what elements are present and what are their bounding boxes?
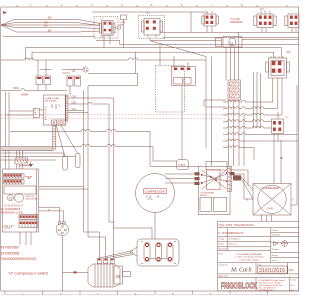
fan motor M2 [88,259,131,288]
terminal strip T1 [65,95,68,121]
svg-text:M. Carli: M. Carli [230,267,252,273]
svg-text:N. 4370800898 REV.01: N. 4370800898 REV.01 [219,232,245,235]
svg-text:+/- 1mm / 0.5 gradi / 1/4 (mm): +/- 1mm / 0.5 gradi / 1/4 (mm) [235,256,264,259]
wire A2 bottom long [163,36,300,38]
svg-text:"A": "A" [71,68,77,73]
wire relay to condenser [232,134,298,205]
svg-text:FRIGOBLOCK: FRIGOBLOCK [221,281,258,290]
wire harness taper [1,20,100,37]
fuse stack right [228,80,241,100]
fuse F1 30A [120,15,127,48]
relay C [272,112,289,141]
svg-text:G: G [9,195,12,200]
svg-text:N. Modifiche: N. Modifiche [229,238,241,240]
wire diagonal bus center [150,37,221,66]
connector B1 6-pin [254,8,276,32]
connector A2 6-pin [139,12,165,39]
svg-text:5B: 5B [280,157,283,160]
wire k-cluster links [1,70,83,97]
svg-text:+/- 0.5 valori angolari: +/- 0.5 valori angolari [239,258,260,261]
wire pressure to motor [99,251,133,259]
ground [20,162,34,168]
svg-text:12 13 14 15 16 17: 12 13 14 15 16 17 [4,205,24,208]
component box center top [171,62,195,160]
wire right bus with hops [223,100,297,147]
connector X2 small [5,108,43,117]
svg-text:BK: BK [48,29,52,33]
wire N to bus verticals [273,78,282,115]
svg-text:CN1: CN1 [178,164,185,168]
connector CN1 [177,160,189,170]
fuse F3 [76,154,81,168]
svg-text:HARNESS: HARNESS [230,20,243,24]
svg-text:M: M [116,274,120,279]
controller U1 [1,169,39,232]
svg-text:445-230VAC: 445-230VAC [45,100,58,103]
svg-text:Grady: Grady [219,238,224,240]
svg-text:31/01/2016: 31/01/2016 [259,268,285,274]
harness wire labels [44,16,52,33]
label TO CAB HARNESS [230,17,243,24]
fuse F2 [63,156,68,170]
wire controller bottom stubs [20,232,31,245]
wire diagonal pair to fuses [56,125,78,156]
wire dashed pink pair [1,115,225,119]
svg-text:R434000090 12-24V: R434000090 12-24V [1,212,23,215]
svg-text:"A": "A" [114,26,118,30]
relay block K3 [198,162,234,215]
svg-text:"OUT": "OUT" [3,225,15,230]
wire top loop [92,12,299,45]
wire right verticals upper [226,32,239,80]
switch D [216,37,300,48]
svg-text:COMPRESSOR: COMPRESSOR [145,189,165,193]
svg-text:4370800897: 4370800897 [1,246,20,250]
svg-text:"N": "N" [286,51,292,55]
wire CN2 to motor [62,236,88,291]
svg-text:BU: BU [44,24,48,28]
svg-text:"C": "C" [285,116,289,120]
connector A1 4-pin [94,17,118,39]
wire mid horizontals with hops [1,129,177,166]
svg-text:C05: C05 [72,102,77,105]
svg-text:C06: C06 [72,96,77,99]
node A bubble [114,26,121,30]
svg-text:Approvato: Approvato [219,275,229,278]
wire controller to bus [39,187,88,190]
svg-text:440-230VAC: 440-230VAC [26,198,39,201]
svg-text:4370800898: 4370800898 [1,252,20,256]
wire right verticals lower [229,72,298,166]
wire center verticals [204,57,226,167]
svg-text:Numero: Numero [272,249,280,251]
dashed box center [155,65,184,112]
svg-text:"d" Compressor switch: "d" Compressor switch [8,271,48,276]
title block [218,221,299,291]
wire compressor to relay [150,166,200,185]
wiring loom ribbed band [1,147,53,151]
svg-text:Podnokel: Podnokel [272,235,281,237]
svg-text:Sch: Sch [289,268,295,272]
wire mid vertical buses [5,86,105,258]
svg-text:C04: C04 [72,108,77,111]
svg-text:Prima: Prima [219,244,225,246]
svg-text:POL. 4TRS. STAGIONATURA: POL. 4TRS. STAGIONATURA [219,223,254,227]
svg-text:www.frigoblock.it: www.frigoblock.it [259,289,274,292]
svg-text:Materiale: Materiale [219,248,228,251]
relay K2 [67,76,81,86]
svg-text:Disegnato: Disegnato [219,264,229,267]
connector B2 6-pin far right [285,14,299,32]
svg-text:CONDENSER: CONDENSER [262,186,280,190]
svg-text:CLIMA SOLAR: CLIMA SOLAR [45,97,60,100]
svg-text:D: D [230,41,233,46]
control unit X1 [43,95,66,125]
pressure switch S1 [130,213,179,267]
terminal strip T2 vertical [53,125,56,149]
wire A1 bottom stubs [104,36,110,48]
node A left label [71,67,88,73]
svg-text:BK: BK [48,16,52,20]
relay K1 [36,60,70,95]
svg-text:H05B4: H05B4 [21,93,29,96]
svg-text:Scala: Scala [272,260,278,262]
svg-text:TOLLERANZE GENERALI: TOLLERANZE GENERALI [236,253,262,256]
svg-text:Ovlare: Ovlare [272,230,279,232]
svg-text:U: U [146,196,148,199]
wire long y32 [160,31,299,33]
svg-text:R434000090SERVICE1: R434000090SERVICE1 [1,257,37,261]
svg-text:"IN": "IN" [25,175,33,180]
svg-text:RELAY: RELAY [200,194,208,197]
wire c-labels [68,96,152,258]
connector B0 4-pin [202,11,219,32]
svg-text:R K: R K [260,8,264,11]
svg-text:FAN: FAN [268,207,273,211]
wire left long horizontals [1,48,282,60]
wire A loop [88,52,138,85]
connector CN2 round [39,207,69,236]
condenser fan [247,184,295,222]
part number labels [1,246,37,262]
connector N [266,51,292,79]
compressor M1 [136,174,175,213]
svg-text:Regga: Regga [272,255,279,257]
svg-text:Rieg. up: Rieg. up [229,244,237,246]
svg-text:H05A: H05A [13,87,19,90]
svg-text:N. Dis.: N. Dis. [290,280,296,282]
fuse F4 above controller [15,151,28,169]
